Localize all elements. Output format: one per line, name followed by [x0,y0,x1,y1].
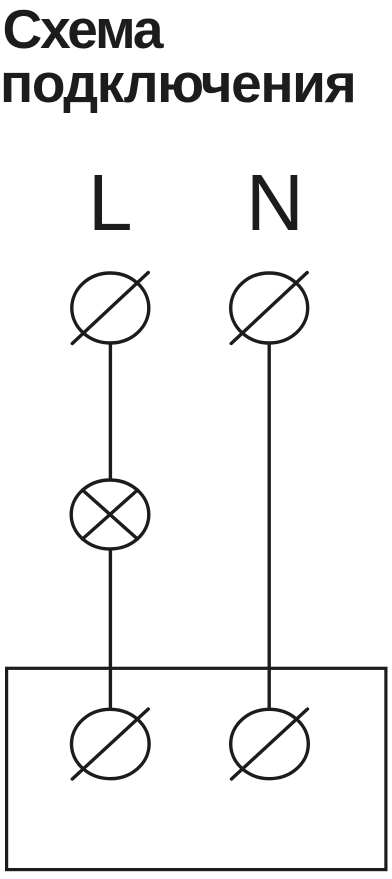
device terminal L (slashed circle) [72,709,150,779]
svg-text:Схема: Схема [3,0,164,60]
device terminal N (slashed circle) [231,709,309,779]
terminal L (supply, slashed circle) [72,273,149,344]
svg-text:L: L [88,158,133,247]
terminal N (supply, slashed circle) [231,273,308,344]
wire: terminal N to device terminal N [268,344,271,709]
wire: lamp to device terminal L [109,549,112,709]
device box [7,668,386,869]
lamp HL (circle with X) [71,480,149,549]
wire: terminal L to lamp [109,343,112,480]
svg-text:подключения: подключения [0,52,355,114]
svg-text:N: N [246,158,304,247]
